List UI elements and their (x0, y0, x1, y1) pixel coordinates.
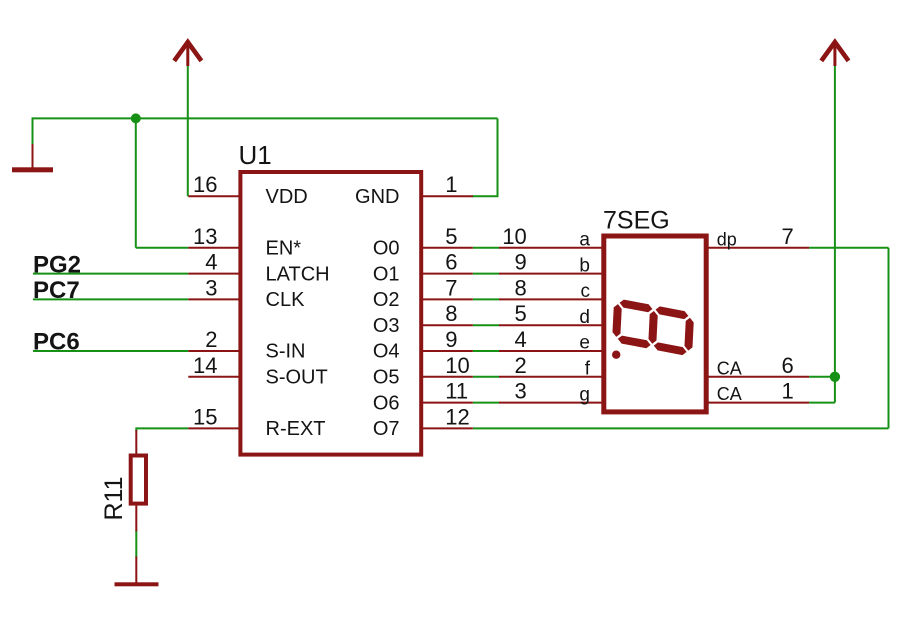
svg-text:16: 16 (193, 172, 217, 197)
svg-text:7SEG: 7SEG (603, 207, 670, 235)
svg-text:CLK: CLK (266, 289, 306, 311)
svg-text:f: f (585, 359, 591, 380)
svg-text:a: a (579, 230, 590, 251)
svg-text:2: 2 (515, 353, 527, 378)
svg-text:6: 6 (445, 250, 457, 275)
svg-text:O4: O4 (373, 341, 400, 363)
svg-text:dp: dp (717, 229, 737, 249)
svg-text:7: 7 (445, 275, 457, 300)
svg-text:5: 5 (445, 224, 457, 249)
svg-text:9: 9 (515, 250, 527, 275)
svg-text:14: 14 (193, 353, 217, 378)
svg-text:O0: O0 (373, 238, 400, 260)
svg-text:4: 4 (205, 250, 217, 275)
svg-text:GND: GND (355, 186, 399, 208)
svg-text:11: 11 (445, 379, 468, 404)
svg-text:R11: R11 (100, 476, 128, 520)
svg-text:O7: O7 (373, 418, 400, 440)
svg-text:15: 15 (193, 404, 217, 429)
svg-text:O3: O3 (373, 315, 400, 337)
svg-text:10: 10 (445, 353, 469, 378)
svg-text:PC6: PC6 (33, 329, 80, 356)
svg-text:CA: CA (717, 358, 742, 378)
svg-text:c: c (581, 281, 591, 302)
svg-text:8: 8 (445, 301, 457, 326)
svg-text:O2: O2 (373, 289, 400, 311)
svg-text:b: b (579, 255, 590, 276)
svg-text:10: 10 (502, 224, 526, 249)
svg-text:g: g (579, 384, 590, 405)
svg-text:2: 2 (205, 327, 217, 352)
svg-text:3: 3 (515, 379, 527, 404)
svg-text:9: 9 (445, 327, 457, 352)
svg-text:EN*: EN* (266, 238, 302, 260)
svg-text:R-EXT: R-EXT (266, 418, 326, 440)
svg-text:5: 5 (515, 301, 527, 326)
svg-text:13: 13 (193, 224, 217, 249)
svg-text:1: 1 (445, 172, 457, 197)
svg-text:8: 8 (515, 275, 527, 300)
svg-text:O6: O6 (373, 392, 400, 414)
svg-text:PC7: PC7 (33, 277, 80, 304)
svg-text:6: 6 (782, 353, 794, 378)
svg-text:PG2: PG2 (33, 251, 81, 278)
svg-text:S-OUT: S-OUT (266, 367, 328, 389)
svg-text:CA: CA (717, 384, 742, 404)
svg-text:7: 7 (782, 224, 794, 249)
svg-text:LATCH: LATCH (266, 263, 330, 285)
svg-text:12: 12 (445, 404, 469, 429)
svg-text:e: e (579, 333, 590, 354)
svg-text:O1: O1 (373, 263, 400, 285)
svg-text:S-IN: S-IN (266, 341, 306, 363)
svg-text:VDD: VDD (266, 186, 308, 208)
svg-text:U1: U1 (239, 140, 272, 170)
svg-text:O5: O5 (373, 367, 400, 389)
svg-text:4: 4 (515, 327, 527, 352)
svg-text:1: 1 (782, 379, 794, 404)
svg-text:d: d (579, 307, 590, 328)
svg-text:3: 3 (205, 275, 217, 300)
